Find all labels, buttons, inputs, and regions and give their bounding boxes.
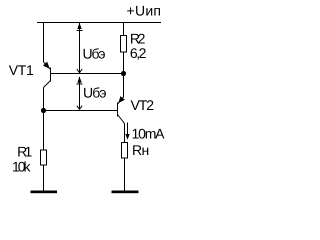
svg-text:Uбэ: Uбэ (83, 84, 107, 100)
svg-text:R1: R1 (17, 144, 32, 160)
svg-text:10mA: 10mA (132, 125, 166, 141)
svg-text:10k: 10k (12, 158, 32, 174)
svg-text:+Uип: +Uип (127, 3, 162, 19)
svg-text:Rн: Rн (132, 142, 149, 158)
svg-text:VT1: VT1 (9, 62, 34, 78)
svg-text:Uбэ: Uбэ (83, 46, 106, 62)
svg-text:VT2: VT2 (131, 97, 155, 113)
svg-text:6,2: 6,2 (130, 45, 147, 61)
